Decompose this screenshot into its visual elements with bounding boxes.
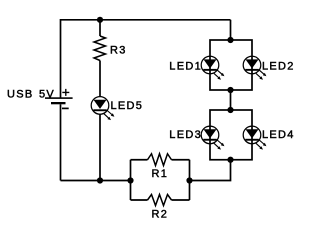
svg-text:LED4: LED4: [262, 129, 295, 141]
battery minus sign: [62, 107, 69, 109]
wire resistor frame right vertical: [189, 160, 191, 200]
LED LED4 arrow 2: [256, 143, 261, 148]
LED LED2 cathode bar: [245, 69, 258, 71]
LED LED2 arrow 1: [259, 70, 265, 75]
LED LED2 arrow 2: [256, 73, 261, 78]
LED LED1 arrow 2: [214, 73, 219, 78]
wire between LED groups: [230, 90, 232, 110]
wire LED group down and left to resistor frame: [190, 160, 231, 181]
svg-text:LED3: LED3: [169, 129, 202, 141]
LED LED1 circle: [201, 56, 219, 74]
LED LED3 arrow 1: [217, 140, 223, 145]
svg-text:LED2: LED2: [262, 60, 295, 72]
wire left rail lower: [60, 104, 62, 180]
LED LED4 triangle: [246, 129, 259, 138]
LED LED1 arrow 1: [217, 70, 223, 75]
LED LED3 circle: [201, 126, 219, 144]
wire left rail upper: [60, 19, 62, 98]
wire R1 right lead: [172, 159, 190, 161]
wire R3 to LED5: [99, 61, 101, 98]
node junction LED1 LED2 bottom: [227, 87, 233, 93]
LED LED5 cathode bar: [93, 109, 106, 111]
svg-text:R2: R2: [152, 209, 169, 221]
wire LED5 to bottom rail: [99, 114, 101, 181]
LED LED4 arrow 1: [259, 140, 265, 145]
wire right branch drop: [230, 20, 232, 40]
node junction LED1 LED2 top: [227, 37, 233, 43]
svg-text:USB: USB: [7, 89, 34, 101]
wire R2 right lead: [172, 199, 190, 201]
wire R1 left lead: [131, 159, 148, 161]
LED LED2 circle: [243, 56, 261, 74]
battery BT1 positive plate: [45, 97, 73, 99]
LED LED3 cathode bar: [203, 139, 216, 141]
battery plus sign: [62, 89, 69, 96]
node junction top of R3 branch: [97, 17, 103, 23]
node junction LED5 branch bottom: [97, 177, 103, 183]
resistor R2: [148, 195, 172, 206]
LED LED3 arrow 2: [214, 143, 219, 148]
wire bottom rail: [61, 180, 131, 182]
svg-text:R3: R3: [110, 45, 127, 57]
node junction LED3 LED4 top: [227, 107, 233, 113]
LED LED4 circle: [243, 126, 261, 144]
LED LED5 circle: [91, 97, 109, 115]
svg-text:R1: R1: [152, 168, 169, 180]
wire LED3 LED4 parallel frame: [210, 110, 252, 160]
svg-text:LED1: LED1: [169, 60, 202, 72]
LED LED5 arrow 1: [107, 110, 113, 115]
node junction resistor frame left: [127, 177, 133, 183]
battery BT1 negative plate: [51, 102, 66, 104]
LED LED1 triangle: [204, 59, 217, 68]
node junction resistor frame right: [186, 177, 192, 183]
wire resistor frame left vertical: [130, 160, 132, 200]
LED LED4 cathode bar: [245, 139, 258, 141]
LED LED2 triangle: [246, 59, 259, 68]
wire R2 left lead: [131, 199, 148, 201]
LED LED5 triangle: [94, 100, 107, 109]
LED LED1 cathode bar: [203, 69, 216, 71]
wire top rail: [61, 19, 231, 21]
LED LED3 triangle: [204, 129, 217, 138]
LED LED5 arrow 2: [104, 114, 109, 119]
wire R3 top lead: [99, 20, 101, 36]
wire LED1 LED2 parallel frame: [210, 40, 252, 90]
node junction LED3 LED4 bottom: [227, 157, 233, 163]
resistor R1: [148, 154, 172, 166]
svg-text:5V: 5V: [39, 89, 55, 101]
resistor R3: [94, 36, 106, 61]
svg-text:LED5: LED5: [111, 100, 144, 112]
